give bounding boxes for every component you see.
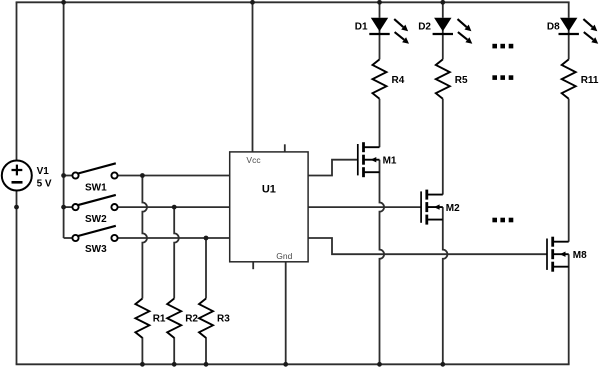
svg-text:R3: R3 — [217, 314, 230, 325]
svg-text:M8: M8 — [573, 250, 587, 261]
svg-text:U1: U1 — [262, 183, 276, 195]
svg-text:R5: R5 — [455, 75, 468, 86]
svg-text:R2: R2 — [185, 314, 198, 325]
svg-text:R11: R11 — [581, 75, 599, 86]
svg-text:Vcc: Vcc — [246, 155, 261, 165]
svg-text:SW1: SW1 — [85, 183, 107, 194]
svg-text:R1: R1 — [153, 314, 166, 325]
svg-text:M2: M2 — [446, 203, 460, 214]
svg-text:5 V: 5 V — [37, 178, 52, 189]
svg-text:SW2: SW2 — [85, 214, 107, 225]
svg-text:D8: D8 — [547, 22, 560, 33]
svg-text:Gnd: Gnd — [276, 251, 292, 261]
svg-text:SW3: SW3 — [85, 244, 107, 255]
svg-text:R4: R4 — [392, 75, 405, 86]
svg-text:D2: D2 — [418, 22, 431, 33]
svg-text:M1: M1 — [383, 156, 397, 167]
svg-text:V1: V1 — [37, 166, 50, 177]
svg-text:D1: D1 — [355, 22, 368, 33]
